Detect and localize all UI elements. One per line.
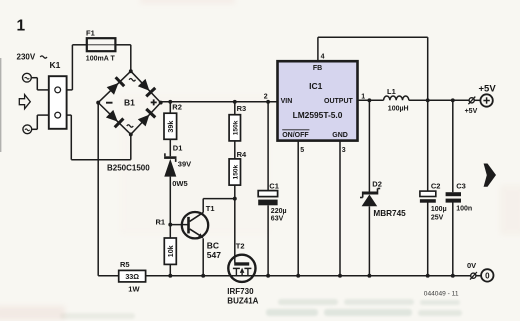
wire C1 branch xyxy=(267,102,269,191)
wire T1 collector to gate node xyxy=(202,199,204,213)
svg-text:R2: R2 xyxy=(172,102,182,111)
svg-text:0W5: 0W5 xyxy=(172,179,187,188)
svg-text:25V: 25V xyxy=(431,214,444,221)
B1 diode top-left xyxy=(107,83,119,95)
svg-text:0: 0 xyxy=(485,271,490,280)
svg-text:150k: 150k xyxy=(232,120,239,135)
wire pin 3 GND to 0V rail xyxy=(339,141,341,276)
B1 diode bottom-right xyxy=(138,115,150,127)
wire base node to T1 base xyxy=(170,224,188,226)
wire gate node to T2 gate xyxy=(234,199,236,263)
wire R3 leads xyxy=(234,102,236,115)
transistor T2 IRF730/BUZ41A xyxy=(228,255,255,282)
svg-text:+5V: +5V xyxy=(479,83,497,94)
transistor T1 BC547 xyxy=(182,212,208,238)
svg-text:0V: 0V xyxy=(467,261,476,270)
wire rectified + rail to VIN xyxy=(161,101,278,103)
svg-text:GND: GND xyxy=(332,132,348,139)
svg-text:F1: F1 xyxy=(86,28,95,37)
resistor R3 150k xyxy=(229,115,240,141)
svg-text:LM2595T-5.0: LM2595T-5.0 xyxy=(293,110,343,120)
IC IC1 LM2595T-5.0 buck regulator xyxy=(278,61,358,140)
svg-text:044049 - 11: 044049 - 11 xyxy=(424,291,459,298)
svg-text:100n: 100n xyxy=(456,206,472,213)
svg-text:IC1: IC1 xyxy=(309,81,323,91)
svg-text:39k: 39k xyxy=(166,121,175,133)
svg-text:39V: 39V xyxy=(178,160,191,169)
wire C2 branch xyxy=(427,100,429,191)
junction dots xyxy=(129,69,133,73)
svg-text:4: 4 xyxy=(321,54,325,61)
svg-text:BC: BC xyxy=(207,241,219,251)
svg-text:K1: K1 xyxy=(50,60,61,70)
wire R1 leads xyxy=(169,225,171,238)
svg-text:230V: 230V xyxy=(17,53,36,62)
K1 terminal 2 xyxy=(55,112,61,118)
wire pin 5 ON/OFF to 0V rail xyxy=(297,141,299,276)
wire mains neutral: AC N to B1 AC node xyxy=(32,128,38,130)
svg-text:100mA T: 100mA T xyxy=(86,55,116,62)
svg-text:IRF730: IRF730 xyxy=(227,287,254,296)
wire D2 branch xyxy=(368,100,370,191)
svg-text:150k: 150k xyxy=(232,164,239,179)
svg-text:100µ: 100µ xyxy=(431,206,447,213)
svg-text:BUZ41A: BUZ41A xyxy=(227,296,258,305)
wire R4 lead to gate node xyxy=(234,185,236,199)
svg-text:10k: 10k xyxy=(166,245,175,257)
svg-text:R3: R3 xyxy=(237,104,247,113)
connector K1 xyxy=(49,76,67,129)
svg-text:B250C1500: B250C1500 xyxy=(107,164,150,173)
capacitor C2 100u 25V xyxy=(420,191,436,196)
svg-text:+5V: +5V xyxy=(465,108,478,115)
svg-text:L1: L1 xyxy=(387,87,396,96)
svg-text:MBR745: MBR745 xyxy=(373,209,406,218)
svg-text:1W: 1W xyxy=(128,284,140,293)
wire FB loop pin 4 to output node xyxy=(317,37,319,61)
bridge rectifier B1 edges xyxy=(98,71,131,102)
mains input arrow xyxy=(19,95,30,109)
svg-text:D2: D2 xyxy=(372,179,382,188)
svg-text:C1: C1 xyxy=(269,182,279,191)
resistor R4 150k xyxy=(229,159,240,185)
capacitor C3 100n xyxy=(446,192,461,196)
wire R2 leads xyxy=(169,102,171,113)
fuse F1 100mA T xyxy=(87,44,116,46)
svg-text:OUTPUT: OUTPUT xyxy=(324,98,354,105)
svg-text:1: 1 xyxy=(361,93,365,100)
svg-text:100µH: 100µH xyxy=(388,105,409,112)
output arrow marker xyxy=(484,164,496,187)
svg-text:B1: B1 xyxy=(124,98,135,108)
svg-text:2: 2 xyxy=(264,94,268,101)
wire mains live: AC L to F1 xyxy=(31,77,37,79)
svg-text:ON/OFF: ON/OFF xyxy=(282,132,309,139)
wire L1 to +5V terminal xyxy=(409,99,469,101)
wire F1 to B1 AC node xyxy=(116,44,131,46)
K1 terminal 1 xyxy=(55,87,61,93)
wire 0V terminal link xyxy=(476,275,481,277)
wire D1 anode to base node xyxy=(169,177,171,225)
svg-text:D1: D1 xyxy=(173,144,183,153)
node +5V output terminal xyxy=(469,98,474,103)
svg-text:R4: R4 xyxy=(237,150,247,159)
wire B1 minus to R5 xyxy=(97,103,99,276)
svg-text:1: 1 xyxy=(17,18,26,35)
svg-text:63V: 63V xyxy=(271,216,284,223)
svg-text:R1: R1 xyxy=(156,217,166,226)
svg-text:FB: FB xyxy=(313,65,322,72)
svg-text:C2: C2 xyxy=(431,182,441,191)
wire pin 1 OUTPUT to L1 xyxy=(358,99,384,101)
svg-text:547: 547 xyxy=(207,250,221,260)
node 0V output terminal xyxy=(471,273,476,278)
svg-text:T1: T1 xyxy=(206,204,215,213)
resistor R1 10k xyxy=(164,238,176,264)
inductor L1 100uH xyxy=(384,96,409,100)
capacitor C1 220u 63V xyxy=(258,191,277,197)
resistor R5 33ohm 1W xyxy=(119,270,146,282)
svg-text:5: 5 xyxy=(300,147,304,154)
svg-text:3: 3 xyxy=(342,147,346,154)
zener diode D1 39V xyxy=(164,156,176,159)
resistor R2 39k xyxy=(164,113,177,139)
B1 diode bottom-left xyxy=(106,110,118,122)
svg-text:T2: T2 xyxy=(236,241,245,250)
schottky diode D2 MBR745 xyxy=(362,192,378,195)
svg-text:VIN: VIN xyxy=(281,98,293,105)
B1 diode top-right xyxy=(138,79,150,91)
wire C3 branch xyxy=(452,100,454,192)
B1 labels xyxy=(106,102,113,104)
wire T1 emitter to 0V rail xyxy=(202,238,204,275)
svg-text:220µ: 220µ xyxy=(271,208,287,215)
AC source symbol bottom (N) xyxy=(23,125,32,134)
svg-text:R5: R5 xyxy=(120,260,130,269)
svg-text:33Ω: 33Ω xyxy=(125,272,139,281)
svg-text:C3: C3 xyxy=(456,182,466,191)
wire 0V bottom rail xyxy=(146,275,471,277)
AC source symbol top (L) xyxy=(23,73,32,82)
